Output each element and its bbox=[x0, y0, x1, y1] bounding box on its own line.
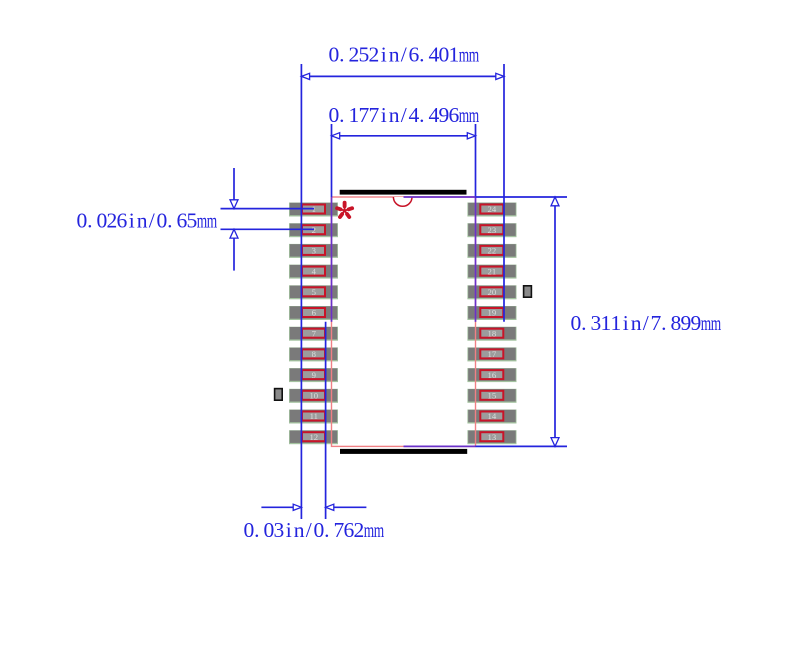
svg-text:i: i bbox=[286, 518, 292, 542]
svg-text:16: 16 bbox=[488, 370, 497, 380]
svg-text:n: n bbox=[631, 311, 642, 335]
svg-text:7: 7 bbox=[369, 103, 380, 127]
svg-text:0: 0 bbox=[77, 209, 88, 233]
svg-text:4: 4 bbox=[409, 103, 420, 127]
svg-text:0: 0 bbox=[329, 43, 340, 67]
svg-text:/: / bbox=[401, 43, 407, 67]
svg-text:i: i bbox=[623, 311, 629, 335]
svg-text:2: 2 bbox=[369, 43, 380, 67]
svg-text:m: m bbox=[207, 208, 217, 232]
svg-text:22: 22 bbox=[488, 246, 497, 256]
svg-text:/: / bbox=[306, 518, 312, 542]
svg-text:i: i bbox=[381, 103, 387, 127]
svg-text:6: 6 bbox=[117, 209, 128, 233]
svg-text:1: 1 bbox=[449, 43, 460, 67]
svg-text:n: n bbox=[389, 103, 400, 127]
svg-text:.: . bbox=[661, 311, 666, 335]
svg-text:2: 2 bbox=[354, 518, 365, 542]
svg-text:.: . bbox=[254, 518, 259, 542]
svg-text:15: 15 bbox=[488, 391, 497, 401]
svg-text:m: m bbox=[459, 103, 469, 127]
svg-text:m: m bbox=[374, 518, 384, 542]
svg-text:n: n bbox=[294, 518, 305, 542]
svg-text:18: 18 bbox=[488, 328, 497, 338]
svg-text:/: / bbox=[149, 209, 155, 233]
svg-text:14: 14 bbox=[488, 411, 497, 421]
svg-text:i: i bbox=[381, 43, 387, 67]
svg-text:.: . bbox=[324, 518, 329, 542]
svg-text:17: 17 bbox=[488, 349, 497, 359]
svg-text:6: 6 bbox=[409, 43, 420, 67]
svg-text:m: m bbox=[364, 518, 374, 542]
svg-text:0: 0 bbox=[571, 311, 582, 335]
svg-text:.: . bbox=[419, 43, 424, 67]
svg-text:5: 5 bbox=[312, 287, 316, 297]
svg-text:9: 9 bbox=[312, 370, 316, 380]
svg-text:6: 6 bbox=[312, 308, 317, 318]
svg-text:7: 7 bbox=[312, 328, 317, 338]
svg-text:.: . bbox=[167, 209, 172, 233]
svg-text:.: . bbox=[339, 43, 344, 67]
svg-text:0: 0 bbox=[314, 518, 325, 542]
svg-text:m: m bbox=[701, 311, 711, 335]
svg-text:13: 13 bbox=[488, 432, 497, 442]
svg-text:3: 3 bbox=[274, 518, 285, 542]
svg-text:7: 7 bbox=[651, 311, 662, 335]
svg-text:24: 24 bbox=[488, 204, 497, 214]
svg-text:m: m bbox=[711, 311, 721, 335]
svg-text:5: 5 bbox=[187, 209, 198, 233]
svg-text:.: . bbox=[581, 311, 586, 335]
svg-text:11: 11 bbox=[310, 411, 318, 421]
svg-text:.: . bbox=[87, 209, 92, 233]
svg-text:0: 0 bbox=[244, 518, 255, 542]
svg-text:6: 6 bbox=[449, 103, 460, 127]
svg-text:20: 20 bbox=[488, 287, 497, 297]
svg-text:19: 19 bbox=[488, 308, 497, 318]
svg-text:3: 3 bbox=[312, 246, 316, 256]
svg-text:9: 9 bbox=[691, 311, 702, 335]
svg-text:0: 0 bbox=[329, 103, 340, 127]
svg-text:m: m bbox=[197, 208, 207, 232]
svg-text:n: n bbox=[137, 209, 148, 233]
svg-text:n: n bbox=[389, 43, 400, 67]
svg-text:8: 8 bbox=[312, 349, 317, 359]
svg-text:/: / bbox=[401, 103, 407, 127]
svg-text:12: 12 bbox=[309, 432, 318, 442]
svg-text:m: m bbox=[469, 103, 479, 127]
svg-text:21: 21 bbox=[488, 266, 497, 276]
svg-text:m: m bbox=[459, 42, 469, 66]
svg-text:.: . bbox=[339, 103, 344, 127]
svg-text:.: . bbox=[419, 103, 424, 127]
svg-text:i: i bbox=[129, 209, 135, 233]
svg-text:23: 23 bbox=[488, 225, 497, 235]
svg-text:0: 0 bbox=[157, 209, 168, 233]
svg-text:1: 1 bbox=[611, 311, 622, 335]
svg-text:4: 4 bbox=[312, 266, 317, 276]
svg-text:m: m bbox=[469, 42, 479, 66]
svg-text:/: / bbox=[643, 311, 649, 335]
svg-text:10: 10 bbox=[309, 391, 318, 401]
